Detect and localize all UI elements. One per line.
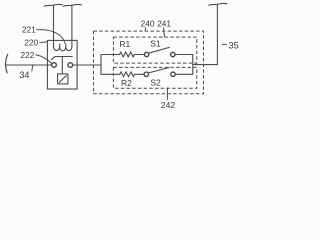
svg-text:220: 220 [24,38,38,48]
svg-text:221: 221 [22,25,36,35]
svg-text:S2: S2 [150,77,161,87]
svg-text:R2: R2 [121,78,132,88]
svg-text:240: 240 [141,19,155,29]
svg-text:241: 241 [157,19,171,29]
svg-text:R1: R1 [119,39,130,49]
svg-text:222: 222 [21,50,35,60]
svg-text:S1: S1 [150,38,161,48]
svg-text:35: 35 [229,40,239,50]
svg-text:34: 34 [19,70,29,80]
svg-text:242: 242 [161,100,176,109]
